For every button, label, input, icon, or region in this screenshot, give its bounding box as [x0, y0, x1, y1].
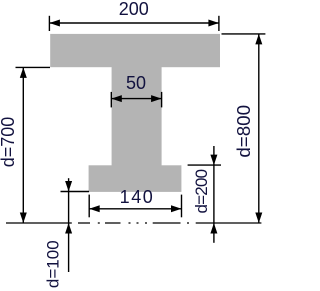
- top flange of I-section: [50, 34, 220, 67]
- dimension 200: right extension line: [218, 16, 220, 31]
- dimension 140: left arrowhead: [89, 205, 100, 212]
- dimension d=800: dimension line: [258, 34, 260, 223]
- dimension d=200: lower arrowhead pointing up: [210, 223, 217, 234]
- dimension 50: dimension line: [111, 98, 161, 100]
- dimension d=200: upper arrowhead pointing down: [210, 155, 217, 166]
- dimension 50: left extension line: [110, 92, 112, 108]
- dimension 140: right extension line: [181, 195, 183, 218]
- dimension d=800: bottom arrowhead: [255, 213, 262, 224]
- dimension d=200: top extension line: [188, 164, 221, 166]
- svg-text:200: 200: [119, 0, 149, 19]
- dimension d=100: dimension line: [68, 178, 70, 272]
- dimension 200: dimension line: [49, 22, 219, 24]
- dimension 50: left arrowhead: [111, 95, 122, 102]
- svg-text:d=100: d=100: [43, 240, 62, 288]
- dimension d=100: lower arrowhead pointing up: [65, 223, 72, 234]
- dimension d=700: top extension line: [16, 66, 51, 68]
- svg-text:d=800: d=800: [233, 105, 254, 158]
- dimension 140: left extension line: [88, 195, 90, 218]
- dimension 140: dimension line: [89, 208, 181, 210]
- dimension 200: left arrowhead: [49, 20, 60, 27]
- svg-text:140: 140: [120, 187, 155, 207]
- dimension 200: left extension line: [48, 16, 50, 31]
- dimension d=200: dimension line: [213, 146, 215, 243]
- dimension d=700: top arrowhead: [20, 67, 27, 78]
- dimension d=100: upper arrowhead pointing down: [65, 181, 72, 192]
- svg-text:d=700: d=700: [0, 117, 18, 168]
- dimension d=700: dimension line: [22, 67, 24, 223]
- dimension d=700: bottom arrowhead: [20, 213, 27, 224]
- dimension d=800: top extension line: [222, 33, 266, 35]
- svg-text:d=200: d=200: [192, 169, 211, 213]
- dimension 140: right arrowhead: [171, 205, 182, 212]
- dimension 200: right arrowhead: [208, 20, 219, 27]
- svg-text:50: 50: [126, 73, 146, 93]
- dimension d=100: top extension line: [61, 191, 90, 193]
- centerline (dash-dot reference axis): [6, 222, 261, 224]
- dimension d=800: top arrowhead: [255, 34, 262, 45]
- dimension 50: right arrowhead: [151, 95, 162, 102]
- bottom flange of I-section: [89, 165, 182, 192]
- web of I-section: [112, 67, 162, 166]
- dimension 50: right extension line: [161, 92, 163, 108]
